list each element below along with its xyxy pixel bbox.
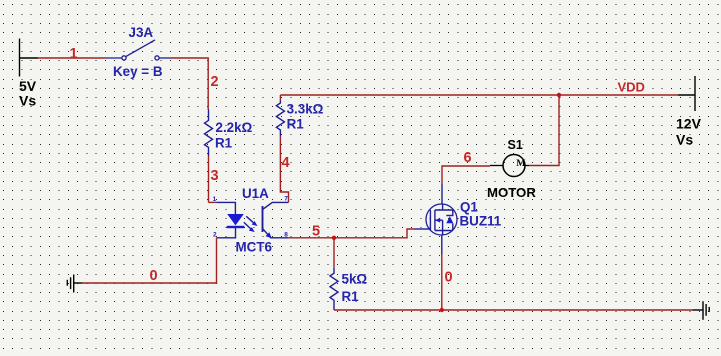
- wire net 0 mosfet source down: [441, 254, 443, 310]
- body diode: [446, 215, 453, 217]
- svg-text:U1A: U1A: [242, 186, 269, 201]
- transistor Q1 BUZ11 MOSFET: [415, 184, 458, 254]
- channel bar: [434, 210, 436, 231]
- body arrow: [435, 219, 442, 221]
- wire motor to VDD branch: [529, 95, 559, 166]
- light arrow 1: [246, 216, 254, 223]
- pin 1 lead: [216, 202, 235, 214]
- svg-text:3.3kΩ: 3.3kΩ: [287, 102, 324, 117]
- power source V2 12V terminal bar: [678, 76, 695, 111]
- svg-text:Key = B: Key = B: [113, 64, 163, 79]
- svg-text:R1: R1: [215, 135, 233, 150]
- wire bottom ground rail: [334, 309, 692, 311]
- svg-text:4: 4: [282, 155, 290, 171]
- svg-text:R1: R1: [287, 117, 305, 132]
- wire net 5 opto pin8 to mosfet gate: [289, 229, 415, 238]
- gate bar: [429, 210, 431, 231]
- svg-text:8: 8: [284, 232, 288, 239]
- svg-text:J3A: J3A: [129, 25, 154, 40]
- svg-text:VDD: VDD: [618, 80, 645, 95]
- emitter arrow head: [266, 232, 272, 238]
- svg-text:MOTOR: MOTOR: [487, 185, 536, 200]
- svg-text:Q1: Q1: [460, 200, 478, 215]
- ground GND1: [67, 275, 73, 293]
- wire 3.3k top stub: [279, 95, 281, 100]
- resistor R1 2.2k: [205, 110, 213, 157]
- wire net 3: [208, 156, 210, 202]
- gate lead stub: [415, 228, 431, 230]
- svg-text:R1: R1: [342, 289, 360, 304]
- svg-text:S1: S1: [508, 138, 523, 152]
- svg-text:2: 2: [213, 232, 217, 239]
- power source V1 5V terminal bar: [20, 39, 39, 77]
- op-amp U1A optocoupler MCT6: [216, 202, 288, 238]
- source pin stub: [441, 235, 443, 254]
- wire net 2: [172, 58, 208, 110]
- svg-text:7: 7: [284, 196, 288, 203]
- LED cathode bar: [227, 226, 245, 228]
- wire net 6 drain to motor: [442, 166, 490, 184]
- ground GND2: [703, 301, 709, 320]
- resistor R1 5k: [330, 268, 338, 310]
- junction net5 / 5k resistor: [332, 236, 336, 240]
- wire ground stub black (right): [692, 309, 703, 311]
- switch J3A: [105, 40, 172, 60]
- svg-text:MCT6: MCT6: [236, 240, 272, 255]
- motor S1: [490, 155, 529, 177]
- wire net 4: [280, 137, 288, 203]
- junction VDD/motor branch: [557, 93, 561, 97]
- svg-text:M: M: [516, 158, 525, 169]
- svg-text:1: 1: [213, 196, 217, 203]
- svg-text:5kΩ: 5kΩ: [342, 272, 368, 287]
- svg-text:6: 6: [464, 150, 472, 166]
- junction bottom rail / mosfet source: [440, 308, 444, 312]
- svg-text:0: 0: [445, 270, 453, 286]
- svg-text:2: 2: [211, 74, 219, 90]
- svg-text:5: 5: [312, 224, 320, 240]
- emitter lead pin 8: [263, 229, 289, 238]
- svg-text:1: 1: [70, 46, 78, 62]
- wire net VDD rail: [280, 94, 678, 96]
- resistor R1 3.3k: [276, 100, 284, 136]
- drain pin stub: [441, 184, 443, 204]
- svg-text:3: 3: [211, 168, 219, 184]
- svg-text:2.2kΩ: 2.2kΩ: [216, 120, 253, 135]
- wire 5k top: [333, 238, 335, 268]
- wire to opto pin 1: [209, 201, 217, 203]
- source connection: [435, 231, 453, 236]
- mosfet circle: [426, 204, 457, 235]
- phototransistor base bar: [262, 206, 264, 232]
- svg-text:Vs: Vs: [676, 132, 693, 148]
- svg-text:Vs: Vs: [19, 93, 36, 109]
- wire opto pin2 to ground net 0: [83, 238, 217, 283]
- wire net 1: [38, 57, 105, 59]
- drain connection: [435, 204, 453, 210]
- svg-text:12V: 12V: [676, 116, 702, 132]
- LED D1 triangle: [227, 214, 244, 225]
- light arrow 2: [244, 222, 251, 229]
- svg-text:0: 0: [150, 268, 158, 284]
- svg-text:BUZ11: BUZ11: [460, 214, 502, 229]
- wire ground stub black: [74, 282, 83, 284]
- pin 2 lead: [217, 228, 236, 238]
- collector lead pin 7: [263, 202, 289, 209]
